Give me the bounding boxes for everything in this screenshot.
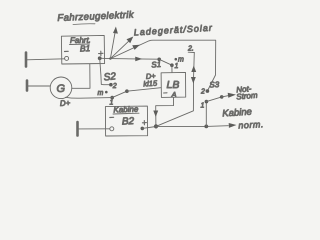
svg-text:1: 1 [201, 103, 205, 110]
wire G D+ to S2 contact 1 [66, 96, 113, 99]
svg-text:B2: B2 [122, 116, 135, 127]
LB box (Ladebooster) [161, 72, 186, 97]
wire B1+ to S1 common [110, 58, 158, 61]
battery terminal bar 1 (B1 minus pole) [25, 53, 28, 67]
svg-text:2.: 2. [187, 46, 194, 53]
B2 minus sign [110, 116, 114, 118]
svg-text:kl15: kl15 [143, 78, 158, 88]
S1 contact m dot [175, 58, 178, 61]
svg-text:D+: D+ [60, 98, 71, 108]
generator G circle [50, 77, 72, 99]
svg-text:S3: S3 [209, 80, 220, 90]
battery terminal bar 3 (B2 minus pole) [76, 122, 79, 136]
wire bar1 to B1 minus [27, 59, 65, 60]
underline Fahrt [70, 43, 90, 46]
B1 minus sign [65, 50, 69, 52]
wire S1 contact1 to LB top [171, 65, 173, 72]
S3 contact 1 dot [205, 100, 209, 104]
wire B2+ to junction [142, 127, 156, 129]
B1 plus sign [99, 51, 103, 56]
arrowhead on that wire [132, 45, 140, 50]
B2 plus terminal dot [141, 127, 145, 131]
B2 plus sign [142, 121, 146, 125]
svg-text:S1: S1 [151, 60, 161, 70]
S1 contact 1 dot [170, 63, 174, 67]
wire LB bottom to B2+ junction [156, 97, 174, 126]
S3 common dot [220, 95, 224, 99]
down arrowhead on that wire [191, 77, 196, 84]
node B2+ junction [154, 124, 158, 128]
svg-text:2: 2 [200, 89, 205, 96]
wire norm bus [156, 125, 228, 128]
arrowhead norm [229, 123, 237, 128]
wire bar2 to G [28, 85, 51, 87]
arrowhead on wire [135, 57, 142, 62]
svg-text:m: m [98, 90, 104, 97]
wire S1 contact2 down to B2+ junction [156, 53, 194, 127]
svg-text:S2: S2 [103, 71, 117, 83]
arrow to Fahrzeugelektrik [110, 30, 115, 59]
wire junction up to S3 contact 1 [205, 102, 207, 127]
B1 minus terminal circle [65, 56, 69, 60]
svg-text:m: m [178, 57, 184, 64]
S3 lever [206, 97, 221, 102]
switch S1 [157, 58, 161, 62]
S2 lever [112, 91, 127, 97]
battery terminal bar 2 (generator) [26, 81, 29, 91]
S2 contact 1 dot (D+ wire end) [110, 96, 114, 100]
node S3 bottom junction [204, 125, 208, 129]
LB minus mark [164, 92, 167, 94]
battery B2 box [105, 106, 147, 136]
down arrowhead on LB output wire [153, 111, 158, 118]
B2 minus terminal circle [110, 127, 114, 131]
svg-text:Kabine: Kabine [222, 106, 252, 119]
up arrowhead on that wire [191, 66, 196, 73]
wire B1+ down to S2 contact 2 [100, 58, 111, 84]
B1 plus terminal dot [98, 56, 102, 60]
underline Kabine [113, 112, 139, 115]
wire B1+ to S3 contact 2 (long top run) [110, 40, 215, 91]
arrowhead Not-Strom [228, 93, 236, 98]
svg-text:2: 2 [112, 83, 117, 90]
svg-text:G: G [57, 83, 66, 95]
battery B1 box [61, 35, 104, 64]
svg-text:B1: B1 [80, 43, 91, 53]
svg-text:norm.: norm. [238, 119, 264, 130]
S2 common dot [125, 89, 129, 93]
S1 lever [159, 59, 172, 65]
wire S3 common out [222, 96, 229, 97]
S2 contact m dot [105, 91, 108, 94]
svg-text:Strom: Strom [236, 91, 258, 102]
wire bar3 to B2 minus [78, 128, 110, 130]
svg-text:1: 1 [175, 63, 179, 70]
S2 contact 2 dot [109, 83, 113, 87]
node fan point at B1+ [109, 57, 111, 59]
arrow to Ladegeraet [110, 39, 131, 59]
S1 contact 2 bar [188, 51, 194, 53]
wire G B+ up to B1 box [72, 64, 90, 88]
wire S2 common to LB left input [127, 88, 161, 92]
underline squiggle [73, 23, 95, 26]
S3 contact 2 dot [206, 89, 210, 93]
wire B1+ to fan node [102, 57, 111, 59]
